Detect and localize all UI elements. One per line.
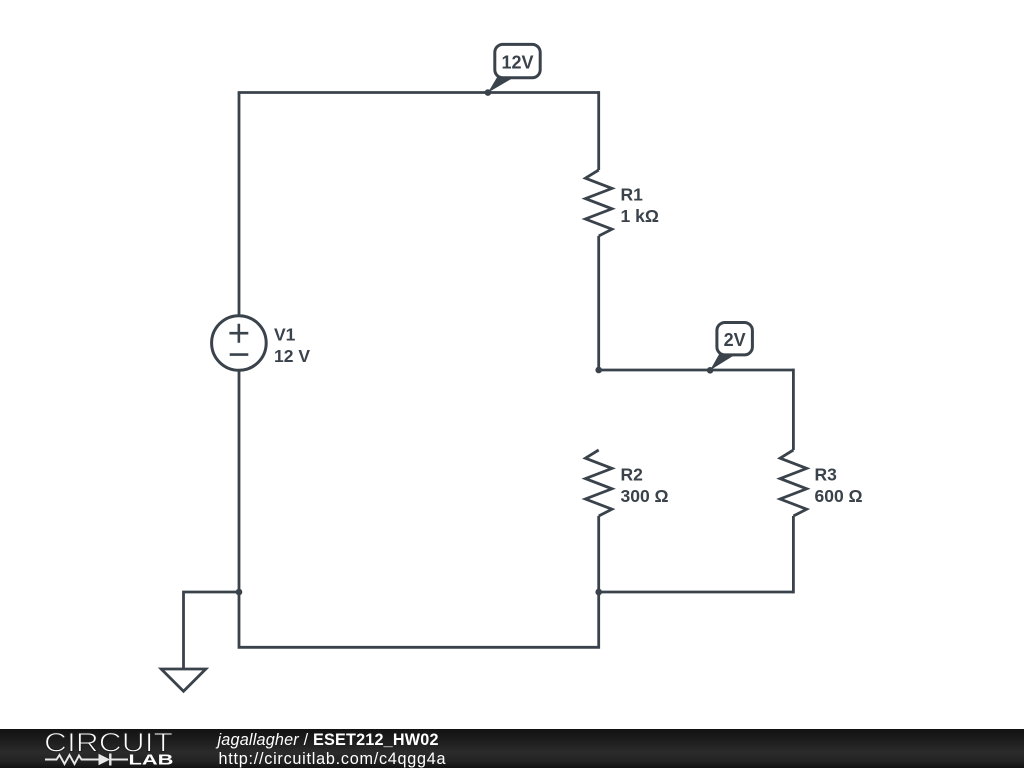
svg-text:R3: R3 bbox=[815, 465, 838, 485]
svg-text:2V: 2V bbox=[724, 330, 746, 350]
voltage source V1 body bbox=[212, 316, 267, 371]
svg-text:V1: V1 bbox=[274, 324, 296, 344]
wire R3 bottom lead bbox=[792, 516, 795, 593]
V1 minus sign bbox=[230, 353, 249, 356]
svg-text:http://circuitlab.com/c4qgg4a: http://circuitlab.com/c4qgg4a bbox=[219, 750, 447, 768]
wire V1 bottom lead bbox=[238, 371, 241, 592]
junction dot bottom node (R2 bottom) bbox=[595, 589, 602, 596]
node flag 2V bbox=[710, 323, 752, 371]
svg-text:R1: R1 bbox=[621, 185, 644, 205]
svg-text:R2: R2 bbox=[621, 465, 644, 485]
resistor R1 bbox=[585, 170, 612, 236]
ground symbol bbox=[161, 669, 206, 691]
wire bottom return (V1 minus to R2/R3 bottom node) bbox=[239, 592, 599, 647]
logo diode triangle bbox=[99, 754, 111, 766]
junction dot node 12V bbox=[485, 89, 492, 96]
V1 plus sign bbox=[229, 324, 248, 343]
wire top horizontal (node 12V) bbox=[238, 91, 599, 94]
wire R3 top lead bbox=[792, 369, 795, 450]
logo resistor-diode underline bbox=[45, 754, 128, 766]
wire bottom-right horizontal (R2 bottom to R3 bottom) bbox=[599, 591, 794, 594]
resistor R3 bbox=[780, 450, 807, 516]
wire R1 bottom lead bbox=[597, 236, 600, 370]
wire V1 top lead up to top-left corner bbox=[238, 93, 241, 316]
resistor R2 bbox=[585, 450, 612, 516]
svg-text:600 Ω: 600 Ω bbox=[815, 486, 863, 506]
wire R2 bottom lead bbox=[597, 516, 600, 592]
svg-text:jagallagher / ESET212_HW02: jagallagher / ESET212_HW02 bbox=[216, 731, 439, 749]
wire ground branch bbox=[184, 592, 240, 669]
junction dot ground node at V1 minus bbox=[236, 589, 243, 596]
wire R1 top lead bbox=[597, 91, 600, 170]
svg-text:300 Ω: 300 Ω bbox=[621, 486, 669, 506]
svg-text:12 V: 12 V bbox=[274, 346, 310, 366]
junction dot node 2V (R1/R2 junction) bbox=[595, 367, 602, 374]
svg-text:12V: 12V bbox=[501, 52, 533, 72]
wire node 2V horizontal to R3 top bbox=[599, 369, 794, 372]
footer bar bbox=[0, 729, 1024, 768]
node flag 12V bbox=[488, 44, 540, 92]
junction dot 2V flag attachment bbox=[707, 367, 714, 374]
svg-text:1 kΩ: 1 kΩ bbox=[621, 206, 659, 226]
svg-text:LAB: LAB bbox=[129, 753, 174, 768]
